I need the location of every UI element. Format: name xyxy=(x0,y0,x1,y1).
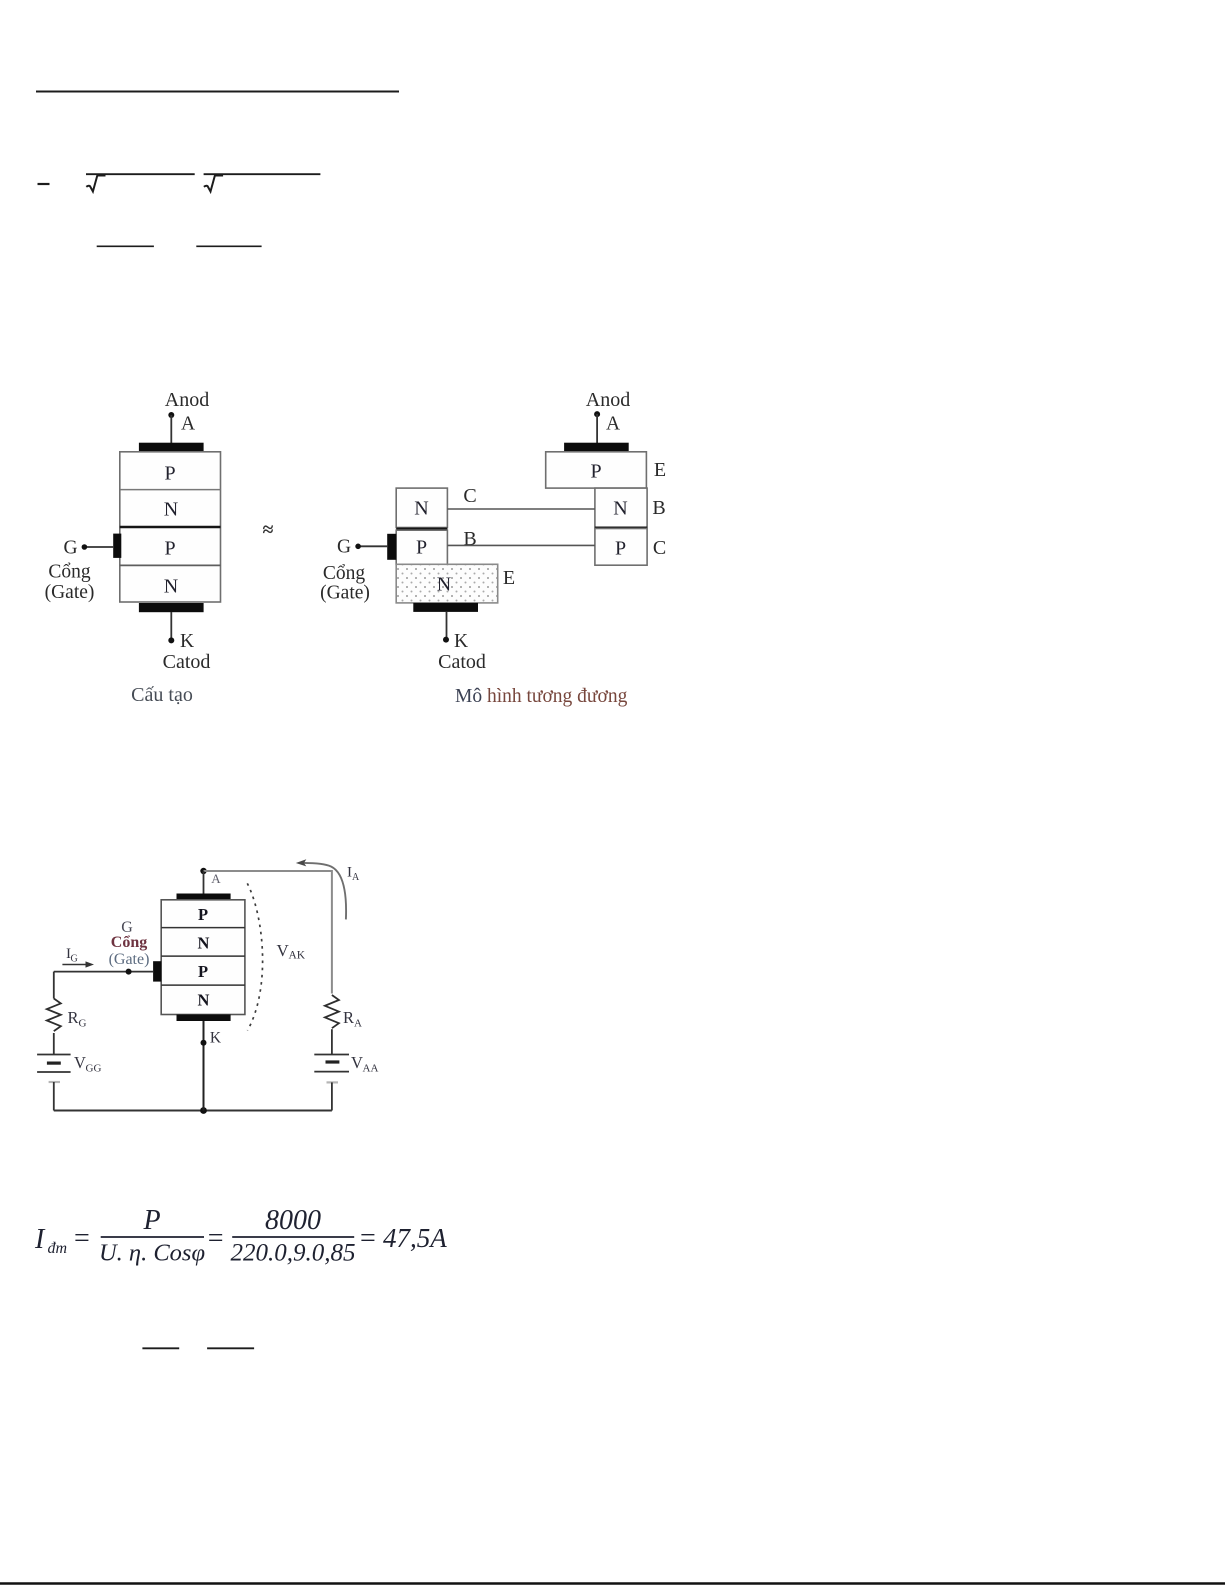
svg-text:N: N xyxy=(164,499,178,521)
svg-text:P: P xyxy=(164,538,175,560)
svg-text:V: V xyxy=(74,1053,86,1072)
anode contact bar xyxy=(177,894,231,901)
wire left vertical upper xyxy=(53,972,55,999)
svg-text:P: P xyxy=(142,1205,160,1236)
svg-text:220.0,9.0,85: 220.0,9.0,85 xyxy=(231,1240,356,1267)
wire left vertical lower xyxy=(53,1033,55,1055)
bottom page rule xyxy=(0,1582,1225,1585)
current IG arrow xyxy=(62,964,91,966)
svg-text:E: E xyxy=(503,567,515,589)
fraction 1 bar xyxy=(101,1236,204,1238)
gate junction dot xyxy=(126,969,132,975)
battery VAA plate long top xyxy=(314,1054,349,1056)
svg-text:P: P xyxy=(164,463,175,485)
svg-text:A: A xyxy=(211,871,221,886)
svg-text:P: P xyxy=(615,538,626,560)
math remnant: fraction bar 3 xyxy=(142,1347,179,1349)
node K terminal dot xyxy=(168,637,174,643)
gate contact bar xyxy=(113,534,121,558)
svg-text:N: N xyxy=(414,498,428,520)
gate contact bar xyxy=(153,961,161,981)
svg-text:47,5A: 47,5A xyxy=(383,1223,447,1253)
svg-text:=: = xyxy=(74,1223,90,1254)
svg-text:Cổng: Cổng xyxy=(48,562,91,583)
svg-text:N: N xyxy=(198,991,210,1010)
svg-text:AK: AK xyxy=(289,950,306,962)
gate terminal dot xyxy=(355,544,361,550)
svg-text:=: = xyxy=(208,1223,224,1254)
wire battery to bottom xyxy=(53,1082,55,1111)
math remnant: radical 1 xyxy=(86,176,97,192)
battery VGG plate long top xyxy=(37,1054,71,1056)
svg-text:=: = xyxy=(360,1223,376,1254)
svg-text:Catod: Catod xyxy=(438,651,486,673)
junction line N/P thick xyxy=(120,526,221,529)
svg-text:I: I xyxy=(34,1224,46,1255)
VAK dashed arc xyxy=(247,883,262,1030)
wire gate horizontal xyxy=(54,971,153,973)
junction line P/N lower xyxy=(120,564,221,566)
svg-text:Mô hình tương đương: Mô hình tương đương xyxy=(455,686,628,707)
junction thick right xyxy=(595,526,647,529)
svg-text:(Gate): (Gate) xyxy=(45,582,95,603)
svg-text:G: G xyxy=(71,954,78,965)
wire top horizontal xyxy=(204,870,332,872)
svg-text:A: A xyxy=(354,1018,362,1030)
current IA arc arrow xyxy=(300,863,346,919)
wire battery VAA to bottom xyxy=(331,1082,333,1110)
junction thick left xyxy=(396,528,447,531)
wire anode lead xyxy=(203,871,205,894)
anode contact bar xyxy=(564,443,629,452)
P box left xyxy=(396,530,447,564)
P collector box right xyxy=(595,529,647,566)
svg-text:K: K xyxy=(210,1030,222,1047)
math remnant: fraction bar 4 xyxy=(207,1347,254,1349)
fraction 2 bar xyxy=(232,1236,354,1238)
N base box right xyxy=(595,488,647,527)
title underline xyxy=(36,91,399,93)
svg-text:N: N xyxy=(437,574,451,596)
svg-text:A: A xyxy=(181,414,195,435)
gate wire xyxy=(84,546,113,548)
svg-text:V: V xyxy=(351,1053,363,1072)
resistor RA xyxy=(325,995,339,1028)
wire right vertical lower xyxy=(331,1029,333,1054)
svg-text:8000: 8000 xyxy=(265,1205,321,1236)
node A terminal dot xyxy=(168,412,174,418)
battery VGG plate short faint xyxy=(49,1081,60,1083)
wire anode lead xyxy=(170,415,172,443)
node A terminal dot xyxy=(594,411,600,417)
math remnant: minus sign xyxy=(38,183,50,185)
wire cathode vertical xyxy=(203,1021,205,1111)
svg-text:U. η. Cosφ: U. η. Cosφ xyxy=(99,1240,205,1267)
wire bottom horizontal xyxy=(54,1110,332,1112)
gate wire xyxy=(358,545,387,547)
math remnant: fraction bar 2 xyxy=(196,245,261,247)
battery VAA plate short xyxy=(326,1060,340,1063)
junction line 1 xyxy=(161,927,245,929)
node A junction dot xyxy=(200,868,206,874)
gate contact bar xyxy=(387,534,396,560)
svg-text:E: E xyxy=(654,459,666,481)
svg-text:Cổng: Cổng xyxy=(323,563,366,584)
N box left xyxy=(396,488,447,527)
svg-text:A: A xyxy=(606,414,620,435)
svg-text:K: K xyxy=(454,631,468,652)
svg-text:K: K xyxy=(180,631,194,652)
math remnant: radical 2 xyxy=(204,176,215,192)
svg-text:(Gate): (Gate) xyxy=(320,583,370,604)
math remnant: fraction bar 1 xyxy=(97,245,154,247)
svg-text:Cổng: Cổng xyxy=(111,934,147,951)
svg-text:Anod: Anod xyxy=(165,389,209,411)
battery VGG plate short xyxy=(47,1061,61,1064)
cathode contact bar xyxy=(139,603,204,612)
cathode contact bar xyxy=(177,1015,231,1022)
cathode contact bar xyxy=(413,603,478,612)
svg-text:Anod: Anod xyxy=(586,389,630,411)
battery VGG plate long bottom xyxy=(37,1071,71,1073)
svg-text:N: N xyxy=(198,934,210,953)
gate terminal dot xyxy=(82,544,88,550)
svg-text:P: P xyxy=(198,905,208,924)
svg-text:B: B xyxy=(463,528,476,550)
thyristor body xyxy=(161,900,245,1015)
junction line 2 xyxy=(161,955,245,957)
wire anode lead xyxy=(596,414,598,443)
wire right vertical xyxy=(331,870,333,994)
bottom junction dot xyxy=(200,1107,207,1114)
svg-text:A: A xyxy=(352,872,360,883)
N emitter stippled box xyxy=(396,564,498,603)
svg-text:≈: ≈ xyxy=(263,519,274,541)
svg-text:C: C xyxy=(463,485,476,507)
svg-text:R: R xyxy=(68,1008,79,1027)
svg-text:B: B xyxy=(652,497,665,519)
node K terminal dot xyxy=(443,637,449,643)
svg-text:GG: GG xyxy=(86,1063,102,1075)
svg-text:N: N xyxy=(613,498,627,520)
node K dot xyxy=(201,1040,207,1046)
wire cathode lead xyxy=(170,612,172,640)
wire cathode lead xyxy=(446,612,448,639)
battery VAA plate long bottom xyxy=(314,1071,349,1073)
svg-text:G: G xyxy=(79,1018,87,1030)
svg-text:đm: đm xyxy=(48,1240,68,1257)
junction line P/N xyxy=(120,489,221,491)
svg-text:Cấu tạo: Cấu tạo xyxy=(131,684,193,706)
junction line 3 xyxy=(161,984,245,986)
thyristor body xyxy=(120,452,221,602)
svg-text:AA: AA xyxy=(363,1063,379,1075)
battery VAA plate short faint xyxy=(327,1081,339,1083)
svg-text:P: P xyxy=(590,461,601,483)
anode contact bar xyxy=(139,443,204,452)
svg-text:N: N xyxy=(164,576,178,598)
svg-text:P: P xyxy=(416,537,427,559)
svg-text:R: R xyxy=(343,1008,354,1027)
svg-text:G: G xyxy=(63,538,77,559)
svg-text:P: P xyxy=(198,962,208,981)
wire B link xyxy=(447,544,595,546)
wire C link xyxy=(447,508,595,510)
svg-text:C: C xyxy=(653,537,666,559)
svg-text:(Gate): (Gate) xyxy=(109,951,150,968)
svg-text:Catod: Catod xyxy=(163,651,211,673)
resistor RG xyxy=(47,999,61,1032)
svg-text:G: G xyxy=(337,537,351,558)
P emitter box xyxy=(546,452,647,488)
